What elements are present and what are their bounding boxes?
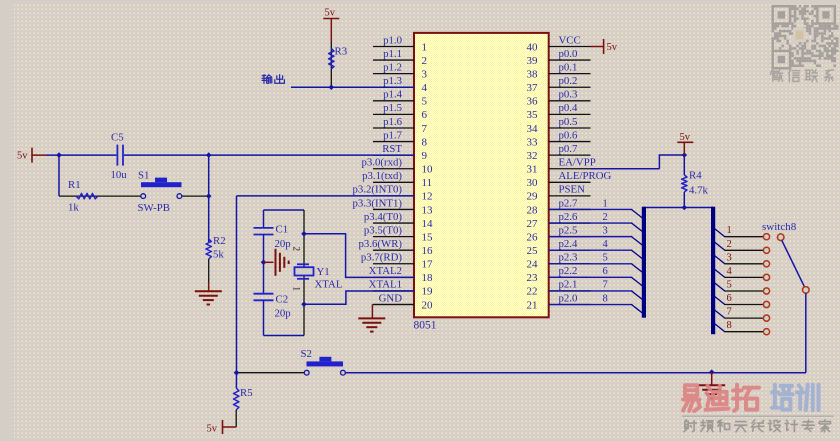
svg-text:8: 8: [727, 320, 732, 331]
svg-text:3: 3: [603, 225, 608, 236]
svg-text:36: 36: [527, 96, 539, 108]
svg-text:R5: R5: [240, 387, 253, 399]
svg-text:p3.3(INT1): p3.3(INT1): [353, 197, 403, 209]
svg-text:p1.7: p1.7: [383, 129, 402, 141]
svg-text:GND: GND: [379, 292, 403, 304]
svg-text:Y1: Y1: [317, 266, 330, 278]
svg-text:30: 30: [527, 177, 539, 189]
svg-text:S1: S1: [138, 170, 149, 182]
svg-text:20: 20: [422, 299, 434, 311]
svg-text:p1.0: p1.0: [383, 34, 402, 46]
svg-text:5v: 5v: [325, 8, 336, 19]
svg-text:40: 40: [527, 41, 539, 53]
svg-text:R2: R2: [213, 235, 226, 247]
svg-text:5: 5: [422, 96, 428, 108]
svg-text:27: 27: [527, 218, 539, 230]
svg-text:31: 31: [527, 164, 538, 176]
svg-text:33: 33: [527, 136, 539, 148]
svg-text:1: 1: [422, 41, 428, 53]
svg-text:1: 1: [603, 198, 608, 209]
svg-text:R4: R4: [689, 170, 702, 182]
svg-text:38: 38: [527, 68, 539, 80]
svg-text:9: 9: [422, 150, 428, 162]
svg-text:p3.7(RD): p3.7(RD): [361, 252, 402, 264]
svg-text:13: 13: [422, 204, 434, 216]
svg-text:18: 18: [422, 272, 434, 284]
svg-text:5: 5: [603, 253, 608, 264]
svg-text:EA/VPP: EA/VPP: [559, 157, 596, 169]
svg-text:p3.1(txd): p3.1(txd): [362, 170, 402, 182]
svg-text:p1.4: p1.4: [383, 89, 402, 101]
svg-text:22: 22: [527, 286, 538, 298]
svg-text:4.7k: 4.7k: [689, 185, 708, 197]
svg-text:2: 2: [422, 55, 428, 67]
svg-text:XTAL: XTAL: [315, 279, 343, 291]
svg-text:37: 37: [527, 82, 539, 94]
svg-text:p3.6(WR): p3.6(WR): [359, 238, 403, 250]
svg-text:VCC: VCC: [559, 34, 581, 46]
svg-text:C5: C5: [111, 132, 124, 144]
svg-text:28: 28: [527, 204, 539, 216]
svg-text:15: 15: [422, 231, 434, 243]
svg-text:35: 35: [527, 109, 539, 121]
svg-text:p1.1: p1.1: [383, 48, 402, 60]
svg-text:24: 24: [527, 259, 539, 271]
svg-text:PSEN: PSEN: [559, 184, 586, 196]
svg-text:7: 7: [727, 307, 732, 318]
svg-text:5v: 5v: [17, 151, 28, 162]
svg-text:6: 6: [603, 266, 608, 277]
svg-text:25: 25: [527, 245, 539, 257]
svg-text:5v: 5v: [680, 132, 691, 143]
svg-text:10: 10: [422, 164, 434, 176]
svg-text:21: 21: [527, 299, 538, 311]
svg-text:19: 19: [422, 286, 434, 298]
svg-text:32: 32: [527, 150, 538, 162]
svg-text:p3.0(rxd): p3.0(rxd): [362, 157, 403, 169]
svg-text:5: 5: [727, 280, 732, 291]
svg-text:2: 2: [727, 239, 732, 250]
svg-text:p0.5: p0.5: [559, 116, 578, 128]
svg-text:23: 23: [527, 272, 539, 284]
svg-text:8: 8: [422, 136, 428, 148]
svg-text:R1: R1: [68, 179, 81, 191]
svg-text:p1.5: p1.5: [383, 102, 402, 114]
svg-text:XTAL1: XTAL1: [369, 279, 402, 291]
svg-text:p1.2: p1.2: [383, 61, 402, 73]
svg-text:8051: 8051: [414, 320, 437, 332]
svg-text:20p: 20p: [275, 238, 291, 250]
svg-text:p2.3: p2.3: [559, 252, 578, 264]
svg-text:R3: R3: [335, 46, 348, 58]
svg-text:p3.2(INT0): p3.2(INT0): [353, 184, 403, 196]
svg-text:1k: 1k: [68, 202, 79, 214]
svg-text:ALE/PROG: ALE/PROG: [559, 170, 612, 182]
svg-text:3: 3: [422, 68, 428, 80]
svg-text:1: 1: [292, 287, 302, 292]
svg-text:1: 1: [727, 225, 732, 236]
svg-text:p2.7: p2.7: [559, 197, 578, 209]
svg-text:8: 8: [603, 293, 608, 304]
svg-text:39: 39: [527, 55, 539, 67]
svg-text:2: 2: [603, 212, 608, 223]
svg-text:p1.3: p1.3: [383, 75, 402, 87]
svg-text:XTAL2: XTAL2: [369, 265, 402, 277]
svg-text:p0.3: p0.3: [559, 89, 578, 101]
svg-text:6: 6: [727, 293, 732, 304]
svg-text:p0.6: p0.6: [559, 129, 578, 141]
svg-text:p0.0: p0.0: [559, 48, 578, 60]
svg-text:11: 11: [422, 177, 433, 189]
svg-text:p0.4: p0.4: [559, 102, 578, 114]
svg-text:5v: 5v: [207, 424, 218, 435]
svg-text:7: 7: [422, 123, 428, 135]
svg-text:C2: C2: [276, 294, 289, 306]
svg-text:p3.5(T0): p3.5(T0): [364, 224, 402, 236]
svg-text:p2.5: p2.5: [559, 224, 578, 236]
svg-text:p1.6: p1.6: [383, 116, 402, 128]
svg-text:26: 26: [527, 231, 539, 243]
svg-text:RST: RST: [382, 143, 402, 155]
svg-text:p2.2: p2.2: [559, 265, 578, 277]
svg-text:4: 4: [727, 266, 733, 277]
svg-text:S2: S2: [301, 348, 312, 360]
svg-text:7: 7: [603, 280, 608, 291]
svg-text:16: 16: [422, 245, 434, 257]
svg-text:p0.2: p0.2: [559, 75, 578, 87]
svg-text:p0.1: p0.1: [559, 61, 578, 73]
svg-text:5v: 5v: [607, 42, 618, 53]
svg-text:4: 4: [603, 239, 609, 250]
svg-text:6: 6: [422, 109, 428, 121]
svg-text:29: 29: [527, 191, 539, 203]
svg-text:switch8: switch8: [762, 221, 797, 233]
svg-text:5k: 5k: [213, 249, 224, 261]
svg-text:12: 12: [422, 191, 433, 203]
svg-text:4: 4: [422, 82, 428, 94]
svg-text:p2.6: p2.6: [559, 211, 578, 223]
svg-text:p3.4(T0): p3.4(T0): [364, 211, 402, 223]
svg-text:p2.4: p2.4: [559, 238, 578, 250]
svg-text:C1: C1: [276, 224, 289, 236]
svg-text:3: 3: [727, 252, 732, 263]
svg-text:20p: 20p: [275, 308, 291, 320]
svg-text:p2.1: p2.1: [559, 279, 578, 291]
svg-text:p2.0: p2.0: [559, 292, 578, 304]
svg-text:14: 14: [422, 218, 434, 230]
svg-text:2: 2: [292, 247, 302, 252]
svg-text:10u: 10u: [111, 169, 128, 181]
svg-text:SW-PB: SW-PB: [138, 202, 170, 214]
svg-text:17: 17: [422, 259, 434, 271]
svg-text:34: 34: [527, 123, 539, 135]
svg-text:p0.7: p0.7: [559, 143, 578, 155]
